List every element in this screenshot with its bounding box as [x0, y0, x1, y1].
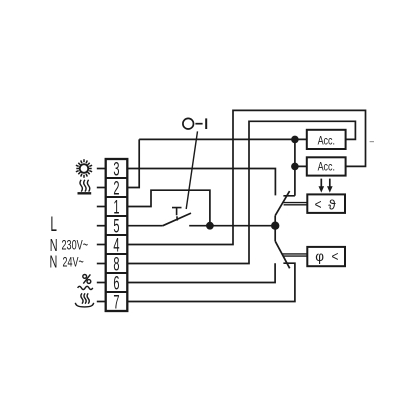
icon cooling (terminal 3): [76, 159, 92, 178]
svg-text:Acc.: Acc.: [318, 162, 335, 174]
svg-text:4: 4: [113, 235, 119, 256]
mechanical linkage thermostat to upper arm: [282, 203, 307, 205]
svg-text:N: N: [50, 253, 58, 272]
svg-text:6: 6: [113, 273, 119, 294]
icon heating (terminal 2): [78, 180, 92, 194]
switch T thermal actuator symbol: [172, 208, 182, 221]
node: Acc2 feed junction: [291, 163, 299, 171]
svg-text:<: <: [315, 196, 322, 212]
switch T moving contact arm: [163, 213, 191, 226]
svg-text:<: <: [332, 248, 339, 264]
wire stub terminal 7: [97, 301, 106, 303]
box Acc. 2: [307, 157, 346, 175]
mechanical linkage humidistat to lower arm: [282, 254, 307, 256]
node: Acc1 feed junction: [291, 136, 299, 144]
wire terminal 4 N230V loop to Acc2 right pin: [127, 110, 365, 244]
stray mark artifact: [370, 141, 374, 143]
terminal block cell dividers: [106, 178, 128, 292]
svg-text:φ: φ: [315, 249, 324, 264]
box thermostat sensor: [307, 194, 345, 213]
wire stub terminal 3: [97, 168, 106, 170]
wire stub terminal 4: [97, 244, 106, 246]
wire stub terminal 2: [97, 187, 106, 189]
wire terminal 8 N24V loop to Acc1 right pin: [127, 121, 355, 263]
svg-text:1: 1: [113, 197, 119, 218]
svg-text:Acc.: Acc.: [318, 135, 335, 147]
wire stub terminal 6: [97, 282, 106, 284]
wire switch T output to changeover common: [189, 225, 275, 227]
arrows Acc to thermostat: [319, 179, 333, 193]
wire stub terminal 8: [97, 263, 106, 265]
linkage on/off control to switch T: [186, 131, 197, 209]
box Acc. 1: [307, 130, 346, 149]
wire terminal 2 to Acc1 left pin (heating feed): [127, 139, 306, 187]
box humidistat sensor: [307, 247, 345, 266]
svg-text:230V~: 230V~: [62, 236, 89, 253]
svg-text:2: 2: [113, 178, 119, 199]
wire terminal 3 to upper changeover fixed contact (cooling): [127, 169, 275, 196]
node: changeover common junction: [271, 222, 279, 230]
wire terminal 5 L to switch T fixed contact: [127, 225, 163, 227]
lower changeover moving arm (humidistat contact): [275, 241, 290, 268]
wire terminal 1 to switched-L node: [127, 190, 210, 226]
icon dehumidify %-over-water (terminal 6): [78, 274, 93, 289]
svg-text:24V~: 24V~: [63, 255, 84, 270]
wire stub terminal 1: [97, 206, 106, 208]
terminal block X1 outline: [106, 159, 128, 311]
on/off symbol dash: [195, 123, 202, 125]
wire node branch to Acc2 left pin and upper fixed contact hook: [283, 139, 306, 195]
svg-text:8: 8: [113, 254, 119, 275]
wire terminal 7 to lower changeover fixed contact hook (humidify): [127, 263, 295, 301]
changeover common vertical wire: [274, 216, 276, 242]
on/off symbol I bar: [205, 118, 207, 129]
icon humidify steam-over-dish (terminal 7): [75, 293, 93, 307]
wire terminal 6 to lower changeover fixed contact (dehumidify): [127, 263, 275, 282]
svg-text:L: L: [50, 213, 57, 236]
on/off symbol circle: [183, 118, 194, 129]
svg-text:7: 7: [113, 292, 119, 313]
svg-text:5: 5: [113, 216, 119, 237]
svg-text:3: 3: [113, 159, 119, 180]
upper changeover moving arm (thermostat contact): [275, 191, 289, 216]
node: T switch output / terminal 1 junction: [206, 222, 214, 230]
svg-text:ϑ: ϑ: [328, 197, 336, 212]
wire stub terminal 5: [97, 225, 106, 227]
